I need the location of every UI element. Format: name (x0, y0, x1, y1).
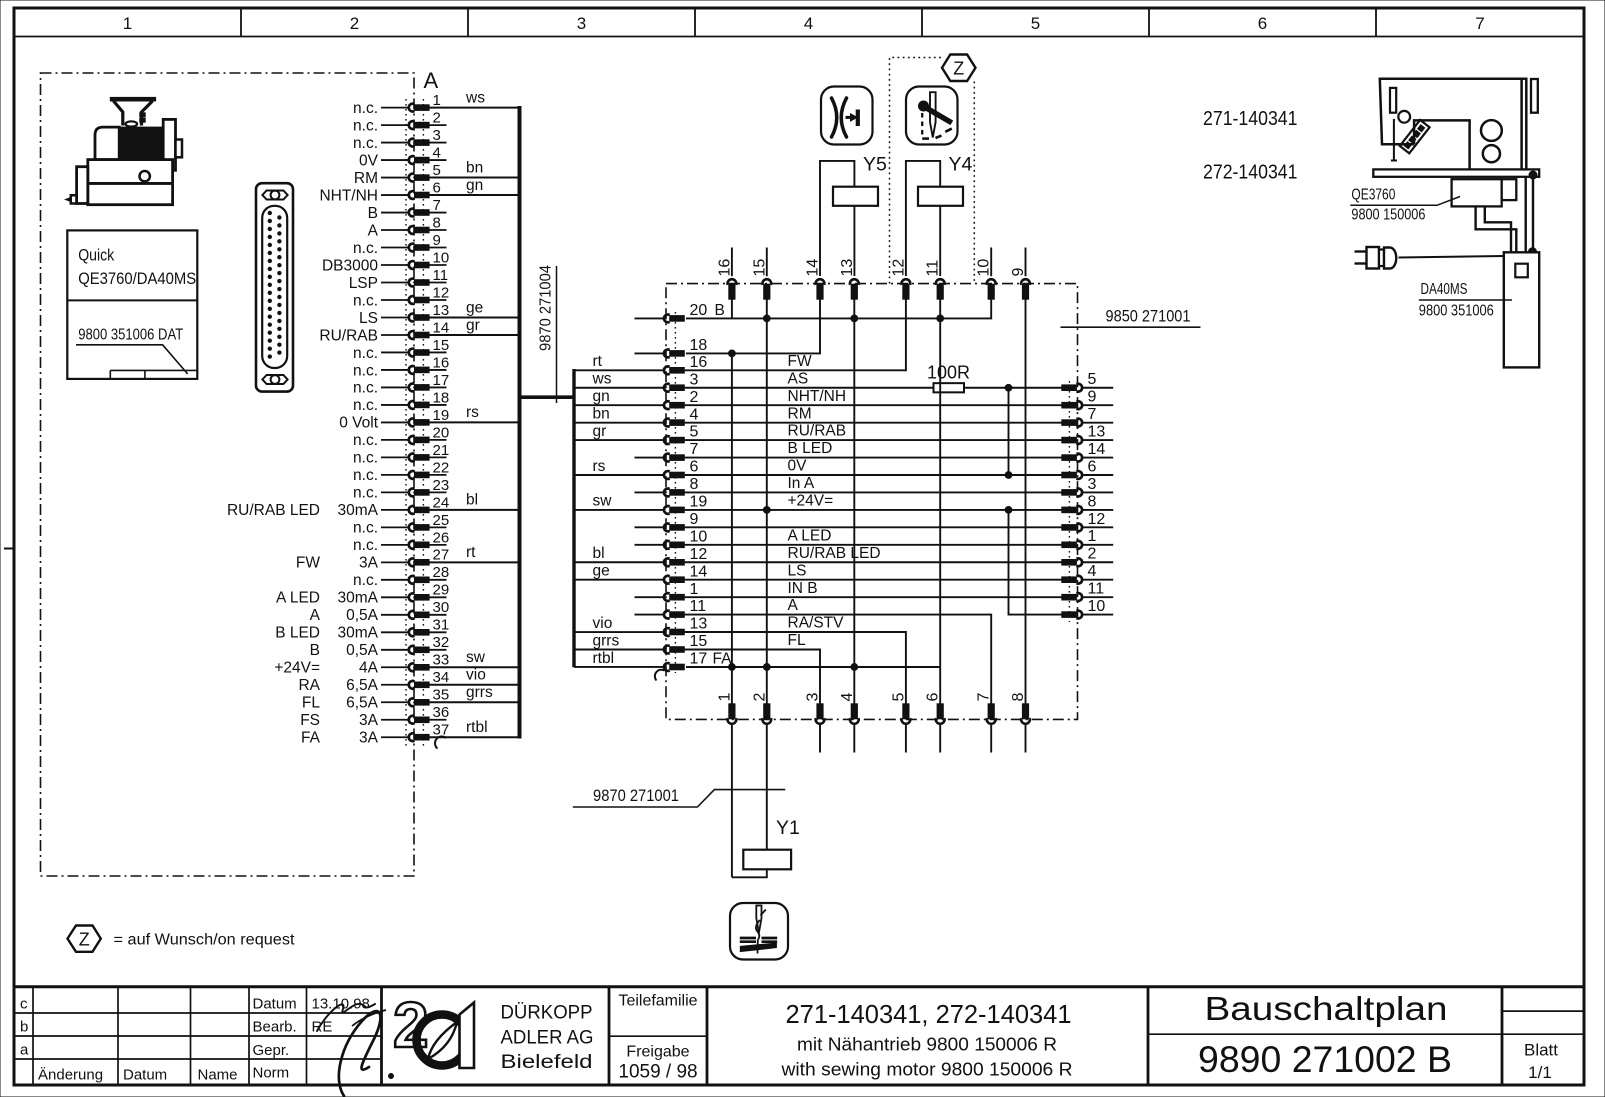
svg-text:23: 23 (433, 477, 450, 494)
FA junction dots (729, 664, 736, 671)
svg-text:RM: RM (354, 170, 378, 187)
+24V junction dots (763, 507, 770, 514)
connector A pin 36 (300, 704, 449, 729)
svg-text:B: B (310, 642, 320, 659)
option symbol Z hexagon (942, 55, 976, 82)
connector A pin 4 (359, 144, 446, 169)
right pins guide line (1068, 381, 1070, 622)
junction box left pin 11 (635, 597, 799, 618)
svg-text:1: 1 (123, 14, 132, 33)
svg-text:c: c (20, 996, 28, 1013)
svg-text:6: 6 (433, 179, 441, 196)
positioning motor illustration (66, 97, 183, 204)
svg-text:Y5: Y5 (863, 154, 887, 176)
RM through wire (685, 422, 1062, 424)
junction box bottom pin 3 (805, 693, 825, 753)
connector A pin 21 (353, 442, 449, 467)
svg-text:7: 7 (1475, 14, 1484, 33)
junction box right pin 9 (1062, 389, 1113, 410)
net 18 junction dot (729, 350, 736, 357)
svg-text:26: 26 (433, 529, 450, 546)
cell divider logo/teilefamilie (608, 987, 611, 1084)
svg-text:gr: gr (466, 317, 480, 334)
svg-text:16: 16 (433, 354, 450, 371)
svg-text:Bielefeld: Bielefeld (501, 1051, 593, 1073)
connector A pin 17 (353, 372, 449, 397)
svg-text:A LED: A LED (276, 590, 320, 607)
svg-text:30mA: 30mA (338, 590, 379, 607)
A wire to bottom pin 7 (685, 615, 992, 705)
svg-text:ws: ws (465, 89, 485, 106)
svg-text:IN B: IN B (788, 580, 818, 597)
junction box left pin 1 (635, 580, 818, 601)
svg-text:10: 10 (976, 259, 993, 277)
connector A pin 13 wire ge (359, 299, 519, 327)
junction box right pin 1 (1062, 528, 1113, 548)
junction box left pin 17 (574, 650, 732, 671)
svg-text:31: 31 (433, 617, 450, 634)
connector A pin 35 wire grrs (302, 684, 520, 712)
junction box bottom pin 5 (890, 693, 910, 753)
junction box left pin 7 (635, 440, 833, 461)
svg-text:271-140341: 271-140341 (1203, 108, 1298, 130)
svg-text:3A: 3A (359, 730, 379, 747)
svg-text:20: 20 (433, 424, 450, 441)
svg-text:10: 10 (433, 249, 450, 266)
svg-text:14: 14 (1088, 441, 1106, 458)
svg-text:11: 11 (433, 267, 449, 284)
bauschaltplan divider (1148, 1033, 1502, 1035)
svg-text:20: 20 (690, 302, 708, 319)
svg-text:RE: RE (312, 1019, 333, 1036)
junction box left pin 20 (635, 302, 725, 322)
svg-text:n.c.: n.c. (353, 240, 378, 257)
wire bottom pin 2 to Y1 coil (766, 723, 768, 850)
svg-text:8: 8 (1088, 493, 1097, 510)
svg-text:RA/STV: RA/STV (788, 615, 845, 632)
svg-text:n.c.: n.c. (353, 432, 378, 449)
svg-text:16: 16 (690, 354, 708, 371)
connector A pin 30 (310, 599, 450, 624)
svg-text:Quick: Quick (78, 247, 115, 265)
svg-text:rtbl: rtbl (466, 719, 488, 736)
svg-text:rtbl: rtbl (593, 650, 615, 667)
svg-text:271-140341, 272-140341: 271-140341, 272-140341 (786, 999, 1072, 1029)
connector A pin 9 (353, 232, 446, 257)
svg-text:8: 8 (433, 214, 441, 231)
svg-text:9: 9 (1010, 268, 1027, 277)
svg-text:mit Nähantrieb 9800 150006 R: mit Nähantrieb 9800 150006 R (797, 1034, 1057, 1055)
svg-text:FL: FL (302, 695, 320, 712)
svg-text:0,5A: 0,5A (346, 607, 379, 624)
connector A pin 16 (353, 354, 449, 379)
svg-text:Datum: Datum (253, 996, 297, 1013)
cell divider title/bauschaltplan (1147, 987, 1150, 1084)
svg-text:n.c.: n.c. (353, 537, 378, 554)
svg-text:0V: 0V (788, 458, 808, 475)
Teilefamilie cell (609, 993, 707, 1083)
svg-text:bn: bn (593, 405, 610, 422)
svg-text:6,5A: 6,5A (346, 677, 379, 694)
junction box left pin 4 (574, 405, 812, 426)
svg-text:100R: 100R (927, 363, 970, 383)
junction box right pin 8 (1062, 493, 1113, 514)
junction box left pin 3 (574, 370, 808, 391)
svg-text:sw: sw (593, 493, 613, 510)
svg-text:5: 5 (890, 693, 907, 702)
svg-text:2: 2 (433, 109, 441, 126)
junction box right pin 4 (1062, 563, 1113, 584)
connector A pin 34 wire vio (298, 667, 519, 695)
Quick QE3760/DA40MS data box (67, 230, 197, 379)
svg-text:36: 36 (433, 704, 450, 721)
svg-text:8: 8 (1010, 693, 1027, 702)
svg-text:0V: 0V (359, 152, 379, 169)
connector A pin 31 (275, 617, 449, 642)
svg-text:AS: AS (788, 370, 809, 387)
RA/STV wire to bottom pin 5 (685, 632, 906, 705)
svg-text:10: 10 (690, 528, 708, 545)
junction box right pin 6 (1062, 458, 1113, 479)
connector A pin 23 (353, 477, 449, 502)
svg-text:30: 30 (433, 599, 450, 616)
svg-text:FL: FL (788, 632, 806, 649)
svg-text:10: 10 (1088, 598, 1106, 615)
svg-text:LS: LS (359, 310, 378, 327)
svg-text:9: 9 (1088, 389, 1097, 406)
wire control box to transformer inner (1485, 206, 1511, 252)
0V junction dot (1005, 472, 1012, 479)
junction box top pin 14 (805, 259, 825, 300)
svg-text:3: 3 (805, 693, 822, 702)
cable boundary box (dash-dot) (41, 73, 415, 876)
table board (1373, 169, 1539, 176)
svg-text:QE3760: QE3760 (1351, 187, 1395, 204)
junction box bottom pin 2 (751, 693, 771, 724)
svg-text:17: 17 (433, 372, 450, 389)
svg-text:3A: 3A (359, 712, 379, 729)
junction box bottom pin 4 (839, 693, 859, 753)
cable shield clamp at junction box (655, 670, 665, 681)
left pins guide line (674, 312, 676, 673)
svg-text:11: 11 (690, 598, 707, 615)
connector A pin 12 (353, 284, 449, 309)
control box QE3760 (1452, 179, 1517, 206)
vertical wire top13-bottom4 (853, 299, 855, 705)
connector A pin 33 wire sw (274, 649, 519, 677)
junction box bottom pin 1 (716, 693, 736, 724)
harness bus line (572, 369, 575, 667)
connector A pin 25 (353, 512, 449, 537)
svg-text:21: 21 (433, 442, 450, 459)
svg-text:19: 19 (433, 407, 450, 424)
svg-text:15: 15 (751, 259, 768, 277)
junction box left pin 18 (635, 337, 708, 357)
svg-text:9870 271004: 9870 271004 (538, 265, 555, 351)
svg-text:1: 1 (690, 581, 699, 598)
svg-text:15: 15 (690, 633, 708, 650)
svg-text:A: A (424, 68, 439, 93)
Duerkopp Adler logo (393, 989, 474, 1068)
sewing machine head illustration (1380, 79, 1538, 170)
vertical wire top9-bottom8 (1025, 299, 1027, 705)
connector A pin 5 wire bn (354, 159, 520, 187)
svg-text:FW: FW (296, 555, 320, 572)
svg-text:Bauschaltplan: Bauschaltplan (1205, 990, 1448, 1027)
label QE3760 (1350, 187, 1460, 206)
svg-text:n.c.: n.c. (353, 572, 378, 589)
junction box bottom pin 8 (1010, 693, 1030, 753)
connector A pin 3 (353, 127, 446, 152)
svg-text:9850 271001: 9850 271001 (1106, 307, 1191, 326)
svg-text:Gepr.: Gepr. (253, 1042, 290, 1059)
connector A pin 19 wire rs (339, 404, 519, 432)
svg-text:4: 4 (839, 693, 856, 702)
svg-text:9: 9 (690, 511, 699, 528)
svg-text:0 Volt: 0 Volt (339, 415, 378, 432)
coil Y1 (743, 850, 791, 870)
svg-text:Änderung: Änderung (38, 1067, 103, 1084)
svg-text:1/1: 1/1 (1528, 1063, 1552, 1082)
solenoid Y4 (needle/thread) with icon (906, 87, 973, 277)
svg-text:gn: gn (466, 177, 483, 194)
svg-text:8: 8 (690, 476, 699, 493)
connector A pin 10 (322, 249, 449, 274)
svg-text:2: 2 (690, 389, 699, 406)
svg-text:gn: gn (593, 388, 610, 405)
svg-text:DÜRKOPP: DÜRKOPP (501, 1002, 593, 1024)
svg-text:Name: Name (198, 1067, 238, 1084)
svg-text:5: 5 (1088, 371, 1097, 388)
svg-text:29: 29 (433, 582, 450, 599)
svg-text:Freigabe: Freigabe (626, 1044, 689, 1061)
junction box right pin 10 (1062, 598, 1113, 618)
vertical wire top15-bottom2 (766, 299, 768, 705)
svg-text:+24V=: +24V= (274, 660, 320, 677)
svg-text:7: 7 (1088, 406, 1097, 423)
svg-text:bl: bl (593, 545, 605, 562)
svg-text:17: 17 (690, 651, 708, 668)
connector A pin 14 wire gr (319, 317, 519, 345)
junction box right pin 7 (1062, 406, 1113, 426)
svg-text:RA: RA (298, 677, 320, 694)
svg-text:grrs: grrs (466, 684, 493, 701)
100R to 0V bridge wire (1008, 388, 1010, 475)
junction box bottom pin 6 (925, 693, 945, 753)
connector A pin 27 wire rt (296, 544, 520, 572)
svg-text:5: 5 (433, 162, 441, 179)
svg-text:gr: gr (593, 423, 607, 440)
svg-text:18: 18 (690, 337, 708, 354)
junction box bottom pin 7 (976, 693, 996, 753)
svg-text:rs: rs (593, 458, 606, 475)
svg-text:9800 351006: 9800 351006 (1419, 303, 1494, 320)
junction box right pin 14 (1062, 441, 1113, 462)
cell divider blatt (1501, 987, 1504, 1084)
svg-text:n.c.: n.c. (353, 362, 378, 379)
approval labels (253, 996, 297, 1082)
svg-text:n.c.: n.c. (353, 450, 378, 467)
connector A pin 11 (349, 267, 448, 292)
connector A pin 28 (353, 564, 449, 589)
svg-text:5: 5 (1031, 14, 1040, 33)
svg-text:272-140341: 272-140341 (1203, 162, 1298, 184)
svg-text:rt: rt (466, 544, 476, 561)
solenoid Y5 (presser foot) with icon (820, 87, 887, 277)
svg-text:Z: Z (79, 929, 90, 949)
junction box right pin 5 (1062, 371, 1113, 391)
revision table grid (14, 987, 1584, 1084)
plug cable (1399, 256, 1504, 258)
svg-text:n.c.: n.c. (353, 380, 378, 397)
junction box left pin 2 (574, 388, 846, 409)
+24V= through wire (685, 509, 1062, 511)
FL wire to bottom pin 3 (685, 650, 820, 705)
cell divider teilefamilie/title (706, 987, 709, 1084)
row 9 through wire (685, 526, 1062, 528)
svg-text:33: 33 (433, 652, 450, 669)
connector A guide lines (406, 99, 423, 746)
svg-text:bl: bl (466, 492, 478, 509)
svg-text:12: 12 (1088, 511, 1106, 528)
svg-text:11: 11 (1088, 581, 1105, 598)
junction box right pin 13 (1062, 424, 1113, 445)
RU/RAB LED through wire (685, 561, 1062, 563)
junction box left pin 6 (574, 458, 807, 479)
svg-text:n.c.: n.c. (353, 117, 378, 134)
svg-text:12: 12 (890, 259, 907, 277)
B LED through wire (685, 457, 1062, 459)
box label 9850 271001 (1061, 307, 1201, 328)
svg-text:Blatt: Blatt (1524, 1041, 1558, 1060)
svg-text:n.c.: n.c. (353, 135, 378, 152)
junction box right pin 11 (1062, 581, 1113, 601)
svg-text:RM: RM (788, 405, 812, 422)
junction box left pin 16 (574, 353, 812, 374)
svg-text:2: 2 (751, 693, 768, 702)
svg-text:6: 6 (1088, 458, 1097, 475)
svg-text:FA: FA (301, 730, 321, 747)
connector A pin 18 (353, 389, 449, 414)
svg-text:n.c.: n.c. (353, 292, 378, 309)
svg-text:4: 4 (1088, 563, 1097, 580)
junction box top pin 16 (716, 248, 736, 300)
cable label 9870 271001 (573, 786, 785, 807)
junction box top pin 12 (890, 259, 910, 300)
cable bus line 9870 271004 (518, 106, 522, 739)
svg-text:RU/RAB: RU/RAB (319, 327, 378, 344)
svg-text:n.c.: n.c. (353, 100, 378, 117)
svg-text:DB3000: DB3000 (322, 257, 378, 274)
connector A pin 8 (368, 214, 447, 239)
svg-text:7: 7 (690, 441, 699, 458)
wire control box to transformer outer (1476, 206, 1517, 252)
svg-text:14: 14 (433, 319, 450, 336)
svg-text:A: A (310, 607, 321, 624)
thread trimmer icon (730, 903, 788, 960)
junction box right pin 3 (1062, 476, 1113, 496)
svg-text:rt: rt (593, 353, 603, 370)
company name (501, 1002, 594, 1074)
svg-text:7: 7 (976, 693, 993, 702)
wire bottom pin 1 down (731, 723, 733, 877)
svg-text:vio: vio (593, 615, 613, 632)
svg-text:rs: rs (466, 404, 479, 421)
svg-text:FS: FS (300, 712, 320, 729)
vertical wire top11-bottom6 (939, 299, 941, 705)
IN B through wire (685, 596, 1062, 598)
AS wire with 100R resistor (685, 363, 1062, 393)
label DA40MS (1419, 281, 1512, 300)
frame centering mark (4, 548, 14, 550)
FW wire (685, 299, 906, 370)
connector A pin 2 (353, 109, 446, 134)
svg-text:6: 6 (1258, 14, 1267, 33)
svg-text:n.c.: n.c. (353, 485, 378, 502)
svg-text:35: 35 (433, 687, 450, 704)
svg-text:B: B (715, 302, 725, 319)
svg-text:2: 2 (1088, 546, 1097, 563)
svg-text:ge: ge (466, 299, 483, 316)
AS junction dot (1005, 384, 1012, 391)
svg-text:3: 3 (577, 14, 586, 33)
svg-text:22: 22 (433, 459, 450, 476)
+24V to right pin 10 bridge (1009, 510, 1063, 615)
In A through wire (685, 491, 1062, 493)
junction box left pin 9 (635, 511, 699, 531)
svg-text:4: 4 (690, 406, 699, 423)
svg-text:30mA: 30mA (338, 502, 379, 519)
svg-text:14: 14 (805, 259, 822, 277)
svg-text:12: 12 (690, 546, 708, 563)
cable label 9870 271004 (538, 265, 557, 403)
svg-text:Norm: Norm (253, 1065, 290, 1082)
svg-text:1: 1 (1088, 528, 1097, 545)
legend Z = auf Wunsch/on request (68, 926, 296, 952)
svg-text:3: 3 (1088, 476, 1097, 493)
svg-text:grrs: grrs (593, 632, 620, 649)
svg-text:RU/RAB: RU/RAB (788, 423, 847, 440)
junction box top pin 13 (839, 259, 859, 300)
net B junction dots (763, 315, 770, 322)
svg-text:A LED: A LED (788, 527, 832, 544)
svg-text:32: 32 (433, 634, 450, 651)
svg-text:QE3760/DA40MS: QE3760/DA40MS (78, 270, 196, 288)
svg-text:0,5A: 0,5A (346, 642, 379, 659)
junction box boundary (dash-dot) (666, 284, 1078, 720)
svg-text:B LED: B LED (275, 625, 320, 642)
junction box left pin 14 (574, 562, 806, 583)
svg-text:1059 / 98: 1059 / 98 (618, 1062, 697, 1083)
cable link wire (518, 395, 575, 399)
svg-text:13: 13 (1088, 424, 1106, 441)
revision row labels (20, 996, 29, 1059)
svg-text:3: 3 (433, 127, 441, 144)
svg-text:A: A (368, 222, 379, 239)
junction box left pin 15 (574, 632, 806, 653)
svg-text:9800 150006: 9800 150006 (1351, 207, 1425, 224)
svg-text:14: 14 (690, 563, 708, 580)
FA wire to bottom pin 6 (686, 666, 940, 668)
svg-text:6,5A: 6,5A (346, 695, 379, 712)
connector A pin 6 wire gn (319, 177, 519, 205)
svg-text:vio: vio (466, 667, 486, 684)
svg-text:bn: bn (466, 159, 483, 176)
connector A pin 24 wire bl (227, 492, 520, 519)
svg-text:9890 271002 B: 9890 271002 B (1198, 1039, 1452, 1080)
wire machine to transformer pair (1524, 177, 1526, 253)
svg-text:9870 271001: 9870 271001 (593, 786, 679, 805)
